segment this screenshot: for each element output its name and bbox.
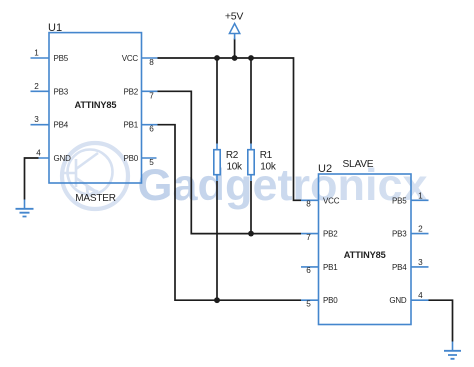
svg-text:PB2: PB2 [123,87,138,96]
svg-text:MASTER: MASTER [75,193,115,204]
svg-text:PB0: PB0 [323,296,338,305]
svg-text:PB3: PB3 [54,87,69,96]
svg-text:10k: 10k [227,162,244,173]
svg-text:PB3: PB3 [392,230,407,239]
svg-text:GND: GND [389,296,407,305]
svg-text:R2: R2 [226,150,239,161]
svg-text:2: 2 [34,82,39,91]
svg-text:PB1: PB1 [123,121,138,130]
svg-text:8: 8 [306,200,311,209]
svg-text:PB4: PB4 [54,121,69,130]
svg-text:U1: U1 [48,22,62,34]
svg-text:3: 3 [418,258,423,267]
svg-text:PB1: PB1 [323,263,338,272]
svg-text:PB0: PB0 [123,154,138,163]
svg-text:PB4: PB4 [392,263,407,272]
svg-text:Gadgetronicx: Gadgetronicx [138,161,428,210]
svg-text:7: 7 [149,91,154,100]
svg-text:ATTINY85: ATTINY85 [344,250,386,260]
svg-text:SLAVE: SLAVE [343,159,374,170]
svg-text:U2: U2 [318,163,332,175]
svg-text:6: 6 [306,266,311,275]
svg-text:PB5: PB5 [392,196,407,205]
svg-text:2: 2 [418,225,423,234]
svg-text:4: 4 [36,149,41,158]
svg-text:VCC: VCC [323,196,340,205]
svg-text:1: 1 [34,49,39,58]
svg-text:PB2: PB2 [323,230,338,239]
svg-text:5: 5 [306,300,311,309]
svg-text:7: 7 [306,233,311,242]
svg-text:PB5: PB5 [54,54,69,63]
svg-text:8: 8 [149,58,154,67]
svg-text:1: 1 [418,191,423,200]
svg-text:5: 5 [149,158,154,167]
svg-text:R1: R1 [260,150,273,161]
svg-text:4: 4 [418,291,423,300]
svg-text:GND: GND [54,154,72,163]
svg-text:VCC: VCC [122,54,139,63]
svg-text:6: 6 [149,125,154,134]
svg-text:3: 3 [34,115,39,124]
svg-text:+5V: +5V [225,11,244,23]
svg-text:10k: 10k [260,162,277,173]
svg-text:ATTINY85: ATTINY85 [75,100,117,110]
